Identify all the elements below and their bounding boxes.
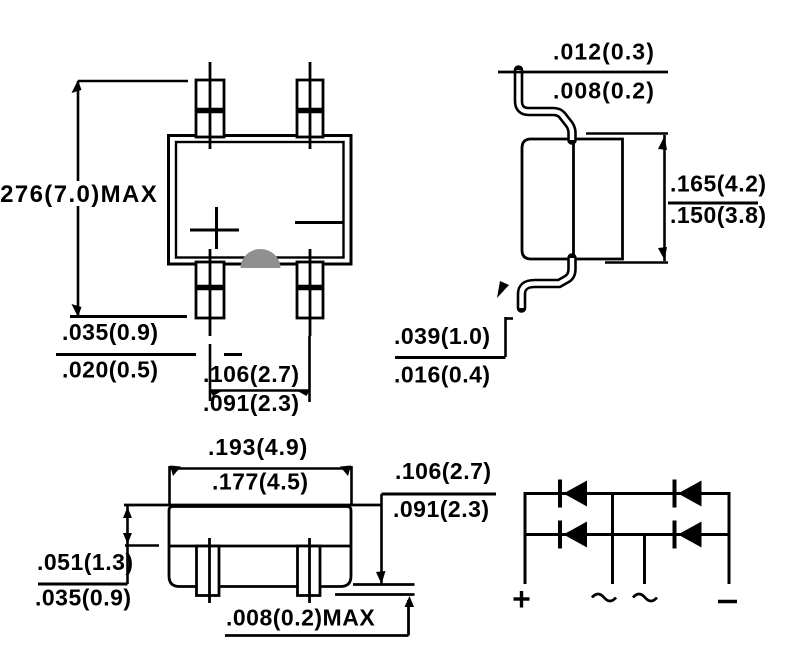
plus polarity mark inside body: [190, 207, 239, 249]
seating plane line: [335, 593, 415, 596]
svg-text:.106(2.7): .106(2.7): [203, 361, 300, 387]
wire ~ terminal 2 vertical: [643, 535, 646, 585]
dimension .039/.016 extension line: [506, 317, 514, 357]
svg-text:.035(0.9): .035(0.9): [62, 319, 159, 345]
dimension vertical .106/.091 front view: [380, 494, 383, 584]
pin 4 lead (bottom-right, top view): [297, 249, 323, 336]
arrow at lead foot: [497, 281, 509, 298]
fraction line .039/.016: [395, 356, 506, 359]
right lead (front view): [298, 538, 321, 603]
svg-text:.091(2.3): .091(2.3): [393, 496, 490, 522]
svg-text:.106(2.7): .106(2.7): [395, 458, 492, 484]
dimension .051 arrowheads: [123, 507, 132, 518]
body seam vertical line (side view): [572, 139, 575, 259]
diode D4 (bottom-right): [675, 521, 702, 549]
svg-text:.276(7.0)MAX: .276(7.0)MAX: [0, 181, 158, 208]
terminal label ~ (right): [633, 594, 657, 601]
svg-text:.020(0.5): .020(0.5): [62, 357, 159, 383]
svg-text:.008(0.2)MAX: .008(0.2)MAX: [226, 605, 375, 631]
pin 3 lead (bottom-left, top view): [196, 249, 224, 336]
body top edge / extension line (front view): [124, 504, 382, 507]
svg-text:.039(1.0): .039(1.0): [394, 323, 491, 349]
lower gull-wing lead with foot (side view): [522, 258, 573, 308]
dimension .035(0.9) leader line: [70, 315, 187, 318]
svg-text:.012(0.3): .012(0.3): [553, 39, 655, 65]
svg-text:.193(4.9): .193(4.9): [208, 434, 308, 460]
svg-text:.091(2.3): .091(2.3): [203, 390, 300, 416]
terminal label -: [718, 600, 737, 603]
dimension .106/.091 extension lines (top view): [209, 336, 310, 402]
diode D3 (bottom-left): [560, 521, 587, 549]
diode D1 (top-left): [560, 480, 587, 508]
wire top rail: [524, 492, 731, 495]
dimension .051/.035 lines (front view left): [125, 505, 159, 584]
up arrow to seating plane: [405, 596, 415, 607]
wire + terminal vertical: [524, 492, 527, 584]
dimension .165/.150 extension lines: [586, 134, 668, 263]
terminal label ~ (left): [592, 594, 616, 601]
fraction line .106/.091 front view: [382, 493, 497, 496]
package body outline (side view): [522, 139, 623, 259]
minus polarity mark inside body: [295, 221, 344, 224]
dimension .193 line with end ticks: [169, 466, 352, 505]
leader line .051/.035: [38, 583, 128, 586]
wire - terminal vertical: [728, 492, 731, 584]
svg-text:.165(4.2): .165(4.2): [670, 171, 767, 197]
gray index bump on body bottom edge: [241, 249, 281, 268]
svg-text:.177(4.5): .177(4.5): [212, 469, 309, 495]
riser line to .008 text: [225, 600, 409, 636]
diode D2 (top-right): [675, 480, 702, 508]
pin 1 lead (top-left, top view): [196, 62, 224, 149]
dimension .020(0.5) leader line: [56, 353, 242, 356]
dimension .276 arrowheads: [72, 80, 82, 93]
svg-text:.051(1.3): .051(1.3): [37, 549, 134, 575]
dimension .276(7.0)MAX vertical line: [78, 81, 188, 316]
svg-text:.035(0.9): .035(0.9): [35, 585, 132, 611]
svg-text:.008(0.2): .008(0.2): [553, 78, 655, 104]
dimension .106 end ticks (top view): [210, 391, 221, 397]
package body inner outline (top view): [176, 142, 344, 258]
wire bottom rail: [524, 533, 731, 536]
package body outline (front view): [169, 507, 351, 587]
fraction line .165/.150: [668, 202, 758, 205]
terminal label +: [514, 591, 530, 608]
svg-text:.150(3.8): .150(3.8): [670, 202, 767, 228]
dimension .012/.008 leader line (lead thickness): [498, 71, 668, 74]
upper gull-wing lead (side view): [519, 70, 573, 140]
package body outer outline (top view): [169, 136, 352, 265]
lead exit seam line (front view): [169, 545, 351, 548]
dimension .165/.150 arrowheads: [658, 136, 667, 150]
pin 2 lead (top-right, top view): [297, 62, 323, 149]
lead tip plane line: [353, 583, 415, 586]
left lead (front view): [197, 538, 220, 603]
svg-text:.016(0.4): .016(0.4): [394, 362, 491, 388]
wire ~ terminal 1 vertical: [611, 494, 614, 585]
